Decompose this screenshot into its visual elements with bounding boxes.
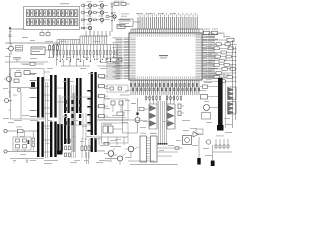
wire: matrix top rail <box>54 44 118 46</box>
choke L804 winding <box>76 78 82 113</box>
video buffer ladder 1 <box>228 87 237 100</box>
secondary rectifier bank box <box>62 97 90 125</box>
wire bus: DAC outputs to filters <box>150 95 174 104</box>
capacitor CX801 <box>16 139 27 142</box>
transistor Q608 (display driver) <box>106 12 116 21</box>
wire: audio mute rail <box>120 95 138 133</box>
transformer T803 lower winding <box>91 138 97 152</box>
regulator U804 7805 <box>103 124 113 133</box>
IC U601 MT1389 (main processor) <box>129 33 202 80</box>
node: matrix ground row <box>5 61 48 63</box>
wire: top bus rail <box>131 28 203 30</box>
junction dots row <box>62 59 119 60</box>
ferrite bead FB602 <box>200 85 218 88</box>
IC inner pin names bottom <box>131 76 200 78</box>
capacitor CY801 CY802 <box>16 140 30 148</box>
audio filter ladder L-channel <box>149 104 157 129</box>
DAC output filter row <box>145 95 181 101</box>
transformer T803 winding bars <box>91 72 97 135</box>
T803 tap dashes <box>87 90 90 132</box>
resistor R631 <box>139 108 148 111</box>
capacitor C614 (left) <box>9 32 12 37</box>
transistor Q603 (display driver) <box>82 16 92 25</box>
IR receiver U603 <box>6 43 13 55</box>
capacitor pair C641/C642 <box>178 104 184 116</box>
inductor FB601 <box>201 95 219 100</box>
AC terminal J801-L <box>4 129 18 132</box>
audio filter ladder R-channel <box>167 104 175 129</box>
label smudges scattered <box>3 13 232 164</box>
PSU left pin stubs <box>9 53 11 110</box>
transformer T801 primary winding <box>37 77 44 118</box>
IC left pin stubs and labels <box>113 38 130 79</box>
transistor Q605 (display driver) <box>94 1 104 10</box>
inductor L801 winding <box>64 78 70 113</box>
transistor Q604 (display driver) <box>82 24 92 33</box>
wire bus: PSU output harness <box>71 85 86 158</box>
inductor L802 winding <box>64 118 70 144</box>
wire: left pin fanout box <box>106 58 122 62</box>
inter-row links <box>224 44 231 77</box>
power connector box CN605 <box>104 99 128 120</box>
wire: bottom rail right <box>130 164 178 166</box>
resistor ladder: key matrix columns <box>53 45 118 63</box>
crystal oscillator box X602 <box>120 14 140 27</box>
wire: bottom rail with drops <box>92 137 128 145</box>
IC top pin stubs <box>131 29 199 33</box>
IC inner pin names top <box>131 34 200 36</box>
wire bus: LCD segment drops <box>57 40 80 45</box>
rectifier bank diodes <box>65 100 82 125</box>
driver IC U606 <box>196 129 203 134</box>
wire: right ground drop <box>211 145 215 166</box>
wire: matrix to IC left comb <box>107 63 119 80</box>
regulator module box <box>102 123 129 143</box>
wire: secondary taps <box>44 80 64 152</box>
PSU inner parts <box>11 62 44 119</box>
capacitor C612 C613 under LCD <box>22 30 50 41</box>
resistor array R6xx (top right of drivers) <box>110 1 130 6</box>
op-amp U605 (driver) <box>193 132 203 138</box>
wire: driver row links <box>84 3 110 30</box>
crystal X601 box <box>117 19 130 29</box>
transformer T802 primary winding <box>50 75 57 118</box>
transistor Q601 (display driver) <box>82 1 92 10</box>
servo interface resistor rows <box>203 42 237 83</box>
transistor Q613 <box>113 146 139 158</box>
transformer T802 secondary winding <box>50 122 57 158</box>
wire: LCD to driver bus <box>9 27 23 44</box>
wire: motor ground drop <box>197 137 200 165</box>
wire: driver output bus <box>80 35 108 37</box>
wire: PSU to logic feed <box>61 65 90 67</box>
bridge rectifier D802-D805 <box>32 131 35 152</box>
wire rows: right misc <box>203 75 230 78</box>
AC terminal J801-N <box>4 150 37 153</box>
motor M801 (loading) <box>183 136 192 145</box>
wire bus: key matrix verticals upper <box>80 36 106 44</box>
LCD display module CN-ONE <box>24 3 80 29</box>
capacitor C611 <box>13 58 21 63</box>
PSU pin labels (transformer side) <box>30 73 37 117</box>
fuse F801 <box>16 127 37 133</box>
LCD digit row 1 <box>26 10 78 17</box>
wire: reset line with R623 <box>203 37 234 42</box>
shield plane (gray) <box>59 93 76 152</box>
connector CN602 <box>16 46 23 51</box>
wire: right vertical bus B <box>235 46 237 120</box>
IC inner pin names right <box>196 34 202 79</box>
IC inner pin names left <box>130 38 136 79</box>
rectifier diode column <box>65 139 71 157</box>
diode D611 <box>136 113 138 115</box>
rectifier diodes on T803 taps <box>97 75 108 118</box>
shielded jack column CN604 <box>217 78 226 131</box>
transistor Q606 (display driver) <box>94 8 104 17</box>
transistor Q615 <box>105 153 126 165</box>
connector CN603 (flex to pickup) <box>140 133 157 162</box>
wire: servo lines <box>128 147 183 161</box>
wire: rectified rail <box>10 154 44 163</box>
LCD digit row 2 <box>26 19 78 26</box>
IC right pin stubs and labels <box>202 34 218 79</box>
terminal CN801 <box>4 99 12 103</box>
wire: mid horizontal runs <box>44 66 172 156</box>
RC snubber cluster <box>213 136 232 153</box>
jack J601 (AV out) <box>202 105 219 120</box>
wire: driver collector drops <box>86 31 110 36</box>
heatsink tab <box>31 82 35 87</box>
filter capacitor column <box>81 138 90 158</box>
wire bus: SDRAM address lines <box>138 13 198 29</box>
wire: left rail to IR circuit <box>5 42 60 44</box>
ground lug <box>57 151 63 155</box>
PSU controller module U801 <box>11 69 45 120</box>
diode D801 <box>14 79 19 82</box>
reset IC U602 <box>31 47 52 55</box>
transformer T801 secondary winding <box>37 122 44 158</box>
matrix lower tap row <box>57 60 84 66</box>
transistor Q612 <box>97 148 115 162</box>
wire: driver vertical rail <box>111 2 112 32</box>
resistor R611 <box>49 44 51 57</box>
decoupling capacitor row 2 <box>132 88 199 91</box>
IC bottom pin comb <box>131 80 199 95</box>
transistor Q614 <box>205 140 211 144</box>
choke L803 winding <box>57 124 63 151</box>
resistor R613 <box>57 44 59 57</box>
decoupling capacitor row 1 <box>130 84 197 87</box>
capacitor C801 <box>15 73 21 77</box>
transistor Q611 (mute) <box>131 98 147 133</box>
wire: right vertical bus A <box>232 40 234 128</box>
resistor R621, R622 (top right) <box>203 29 224 38</box>
capacitor C802 <box>24 71 30 75</box>
transistor Q607 (display driver) <box>94 16 104 25</box>
line filter box <box>13 137 31 150</box>
wire: filter drops <box>18 131 25 152</box>
transistor Q602 (display driver) <box>82 8 92 17</box>
resistor R612 <box>53 44 55 57</box>
resistor R641 <box>104 143 111 162</box>
wire: primary verticals <box>44 82 89 164</box>
video buffer ladder 2 <box>228 102 237 115</box>
wire: 5V rail <box>97 120 133 129</box>
filter group box <box>107 85 128 92</box>
wire bus: ribbon to connector <box>158 101 168 145</box>
photocoupler U802 <box>4 76 12 81</box>
